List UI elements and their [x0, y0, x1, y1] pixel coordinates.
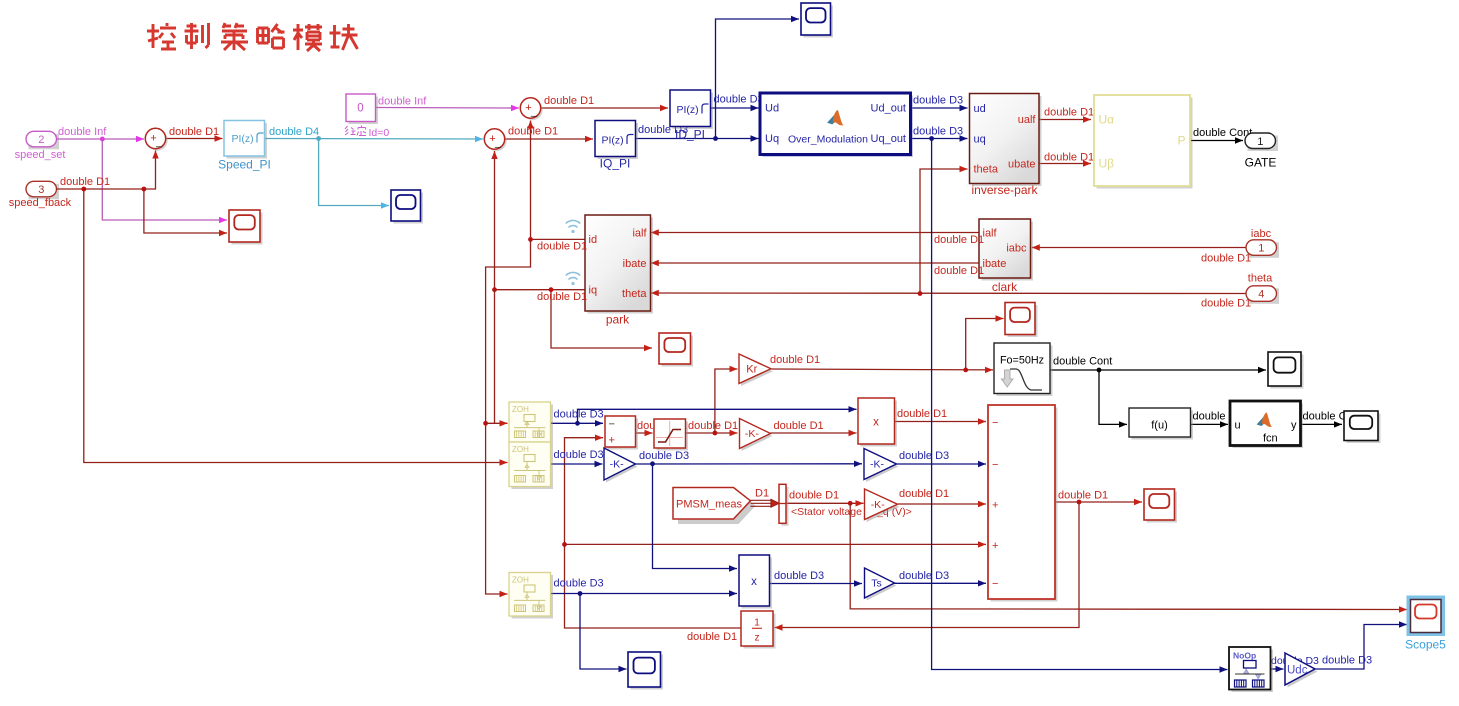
svg-text:theta: theta	[974, 164, 999, 176]
svg-text:_: _	[494, 137, 502, 149]
wire Udc to Scope5	[1316, 621, 1408, 669]
svg-text:Fo=50Hz: Fo=50Hz	[1000, 355, 1044, 367]
svg-text:NoOp: NoOp	[1233, 651, 1256, 661]
svg-text:0: 0	[357, 103, 363, 115]
scope Kr out	[1005, 303, 1038, 338]
wire ualf to Ualpha	[1040, 116, 1092, 122]
svg-text:-K-: -K-	[610, 459, 625, 471]
subsystem clark	[979, 219, 1033, 281]
wire IQ_PI out to Uq	[636, 135, 759, 141]
wire decoup sum to saturation	[636, 430, 653, 436]
svg-text:D1: D1	[755, 488, 769, 500]
svg-text:double D1: double D1	[934, 265, 984, 277]
svg-text:double D1: double D1	[687, 631, 737, 643]
wire ZOH1 out to decoup sum	[551, 420, 604, 426]
svg-text:−: −	[609, 419, 615, 431]
svg-text:id: id	[589, 234, 598, 246]
svg-text:double D1: double D1	[1058, 490, 1108, 502]
svg-text:−: −	[992, 417, 998, 429]
svg-text:+: +	[992, 500, 998, 512]
scope Scope5 selected	[1407, 596, 1446, 637]
wire big sum out to scope	[1056, 499, 1143, 505]
svg-text:Ud: Ud	[765, 103, 779, 115]
wire NoOp to Udc	[1271, 666, 1284, 672]
svg-text:z: z	[755, 633, 760, 644]
wire Vsq branch to Scope5	[850, 503, 1407, 612]
svg-text:u: u	[1235, 420, 1241, 432]
wire theta from port4 to park	[651, 290, 1246, 296]
wire id branch jog to ZOH3	[483, 239, 530, 597]
svg-text:double D1: double D1	[1044, 152, 1094, 164]
wire Kr to filter Fo	[772, 367, 994, 373]
svg-text:Ud_out: Ud_out	[871, 103, 906, 115]
svg-text:uq: uq	[974, 134, 986, 146]
svg-text:double D1: double D1	[770, 354, 820, 366]
svg-text:double D1: double D1	[169, 126, 219, 138]
subsystem P yellow	[1094, 95, 1193, 189]
svg-text:+: +	[609, 435, 615, 447]
svg-text:double D3: double D3	[554, 578, 604, 590]
lowpass filter block Fo=50Hz	[994, 343, 1053, 396]
MATLAB function block fcn	[1230, 401, 1303, 448]
wire filter out to scope	[1051, 367, 1267, 373]
svg-text:double D1: double D1	[537, 241, 587, 253]
svg-text:double D4: double D4	[269, 126, 319, 138]
subsystem Speed_PI	[224, 121, 267, 159]
wire fcn to scope	[1301, 421, 1343, 427]
label 给定Id=0	[345, 126, 366, 136]
bus selector block	[779, 484, 789, 526]
scope speed signals	[229, 210, 263, 245]
scope ZOH3	[628, 652, 663, 690]
svg-text:double Inf: double Inf	[378, 96, 427, 108]
bus signal triple line	[751, 500, 780, 508]
svg-text:speed_set: speed_set	[15, 149, 66, 161]
svg-text:−: −	[992, 459, 998, 471]
svg-text:ibate: ibate	[983, 258, 1007, 270]
input port 1 iabc	[1246, 240, 1279, 258]
svg-text:Uq_out: Uq_out	[871, 133, 906, 145]
svg-text:y: y	[1291, 420, 1297, 432]
svg-text:Speed_PI: Speed_PI	[218, 158, 271, 172]
wire Ud_out to inverse-park ud	[911, 105, 968, 111]
wire id branch to ZOH1	[486, 420, 508, 426]
gain Udc triangle	[1285, 653, 1318, 688]
svg-text:double Cont: double Cont	[1193, 127, 1252, 139]
wire ubate to Ubeta	[1040, 160, 1092, 166]
wire unit delay feedback	[562, 435, 741, 629]
svg-text:double D1: double D1	[897, 408, 947, 420]
subsystem park	[585, 215, 653, 314]
svg-text:double D1: double D1	[1044, 107, 1094, 119]
svg-text:_: _	[155, 136, 163, 148]
svg-text:double D1: double D1	[537, 291, 587, 303]
svg-text:inverse-park: inverse-park	[971, 183, 1038, 197]
wire product x to big sum port1	[895, 418, 987, 424]
svg-text:3: 3	[38, 184, 44, 196]
wire Uq_out to inverse-park uq	[911, 135, 968, 141]
zero-order hold ZOH2	[509, 442, 553, 489]
svg-text:x: x	[873, 417, 879, 429]
wire Ts to big sum port5	[895, 580, 987, 586]
svg-text:double D3: double D3	[714, 94, 764, 106]
svg-text:double D3: double D3	[639, 450, 689, 462]
svg-text:Udc: Udc	[1287, 665, 1308, 677]
constant block 0	[346, 94, 378, 124]
wire branch down to product x2	[653, 464, 738, 572]
svg-text:Uq: Uq	[765, 133, 779, 145]
subsystem inverse-park	[970, 94, 1042, 187]
svg-text:double D1: double D1	[1201, 253, 1251, 265]
wire constant to id sum double Inf	[376, 105, 520, 111]
svg-text:double D3: double D3	[899, 450, 949, 462]
svg-text:double D3: double D3	[554, 409, 604, 421]
input port 2 speed_set	[26, 131, 59, 149]
svg-text:+: +	[992, 540, 998, 552]
svg-text:Uβ: Uβ	[1099, 157, 1115, 171]
wire big sum branch to unit delay	[775, 502, 1080, 631]
svg-text:ualf: ualf	[1018, 114, 1037, 126]
output port 1 GATE	[1245, 133, 1278, 151]
wire Uq branch up to scope	[716, 16, 800, 139]
svg-text:double D1: double D1	[60, 176, 110, 188]
wire park iq feedback	[491, 151, 585, 292]
svg-text:double D1: double D1	[934, 234, 984, 246]
subsystem ID_PI	[670, 90, 713, 129]
svg-text:ZOH: ZOH	[512, 445, 529, 454]
svg-text:Over_Modulation: Over_Modulation	[788, 134, 868, 146]
wire iq down segment	[494, 290, 496, 424]
svg-text:Uα: Uα	[1099, 113, 1115, 127]
svg-text:GATE: GATE	[1245, 156, 1277, 170]
sum block speed error	[145, 128, 167, 150]
wire clark ialf to park	[651, 229, 979, 235]
gain -K- decoup	[740, 419, 773, 452]
sum block decoupling	[605, 416, 638, 450]
svg-text:double D1: double D1	[789, 490, 839, 502]
gain -K- blue left	[604, 448, 638, 483]
sum block id error	[520, 98, 542, 120]
wire ID_PI out to Ud	[711, 105, 759, 111]
wire branch up to Kr	[715, 366, 738, 433]
gain -K- blue right	[864, 449, 899, 483]
scope fcn out	[1344, 411, 1381, 443]
wire fu to fcn	[1191, 421, 1229, 427]
svg-text:clark: clark	[992, 280, 1018, 294]
svg-text:1: 1	[1257, 136, 1263, 148]
NoOp block	[1229, 647, 1273, 692]
gain Ts	[865, 568, 897, 601]
signal logging badge id	[566, 220, 580, 233]
wire gain Vsq to big sum port3	[898, 501, 987, 507]
wire speed_fback branch to scope	[144, 189, 227, 236]
svg-text:theta: theta	[1248, 273, 1273, 285]
sum block iq error	[484, 129, 506, 151]
svg-text:ialf: ialf	[632, 228, 647, 240]
scope iq	[659, 333, 693, 367]
scope Uq top	[801, 3, 833, 38]
svg-text:double D1: double D1	[899, 488, 949, 500]
svg-text:f(u): f(u)	[1151, 420, 1168, 432]
big sum block	[988, 405, 1058, 602]
svg-text:Kr: Kr	[746, 363, 757, 375]
wire gain blue to right gain blue	[636, 461, 863, 467]
svg-text:double D3: double D3	[554, 449, 604, 461]
svg-text:double D3: double D3	[899, 570, 949, 582]
scope filter out	[1268, 352, 1304, 389]
MATLAB function Over_Modulation	[760, 93, 913, 157]
svg-text:park: park	[606, 313, 630, 327]
input port 3 speed_fback	[26, 181, 59, 199]
svg-text:ZOH: ZOH	[512, 576, 529, 585]
svg-text:double D3: double D3	[1322, 655, 1372, 667]
wire speed_fback to speed sum	[57, 151, 159, 192]
svg-text:PI(z): PI(z)	[677, 104, 699, 116]
unit delay block 1/z	[741, 611, 776, 649]
svg-text:double D3: double D3	[774, 570, 824, 582]
scope double D4	[391, 190, 423, 224]
fcn expression block f(u)	[1129, 408, 1193, 440]
saturation block	[654, 419, 688, 451]
wire speed sum to Speed_PI	[166, 135, 223, 141]
subsystem IQ_PI	[595, 121, 638, 160]
svg-text:1: 1	[754, 618, 760, 629]
svg-text:ialf: ialf	[983, 228, 998, 240]
wire theta branch to inverse-park	[920, 166, 968, 294]
wire gain -K- to product x	[771, 430, 857, 436]
input port 4 theta	[1246, 286, 1279, 304]
svg-text:fcn: fcn	[1263, 433, 1278, 445]
svg-text:iabc: iabc	[1006, 243, 1027, 255]
svg-text:P: P	[1177, 134, 1185, 148]
wire speed_set to speed sum	[57, 136, 145, 142]
svg-text:−: −	[992, 578, 998, 590]
svg-text:_: _	[530, 106, 538, 118]
svg-text:Ts: Ts	[871, 578, 882, 590]
wire clark ibate to park	[651, 260, 979, 266]
wire P to GATE	[1191, 137, 1244, 143]
svg-text:theta: theta	[622, 288, 647, 300]
wire id sum to ID_PI	[541, 105, 668, 111]
svg-text:double D1: double D1	[544, 95, 594, 107]
svg-text:ZOH: ZOH	[512, 405, 529, 414]
wire branch to fu	[1099, 370, 1127, 428]
wire speed_set branch to scope	[102, 139, 227, 223]
from tag PMSM_meas	[673, 488, 756, 525]
wire bus selector to gain Vsq	[787, 500, 864, 506]
wire saturation to gain -K-	[686, 430, 738, 436]
svg-text:double D3: double D3	[913, 126, 963, 138]
scope big sum out	[1144, 489, 1177, 523]
wire filter branch to scope	[966, 315, 1004, 370]
wire right gain blue to big sum port2	[897, 461, 987, 467]
wire iq sum to IQ_PI	[505, 136, 593, 142]
svg-text:ID_PI: ID_PI	[675, 128, 705, 142]
svg-text:ibate: ibate	[623, 258, 647, 270]
wire iabc port to clark	[1032, 244, 1246, 250]
gain -K- Vsq	[865, 489, 900, 522]
svg-text:speed_fback: speed_fback	[9, 197, 72, 209]
title annotation 控制策略模块	[147, 23, 358, 51]
wire ZOH3 branch to scope	[580, 594, 627, 673]
svg-text:-K-: -K-	[871, 499, 886, 511]
svg-text:iq: iq	[589, 285, 598, 297]
svg-text:double Cont: double Cont	[1053, 356, 1112, 368]
product block x upper	[858, 398, 897, 447]
svg-text:Id=0: Id=0	[369, 127, 390, 139]
svg-text:double Inf: double Inf	[58, 126, 107, 138]
svg-text:2: 2	[38, 134, 44, 146]
svg-text:iabc: iabc	[1251, 228, 1272, 240]
svg-text:IQ_PI: IQ_PI	[600, 157, 631, 171]
svg-text:1: 1	[1258, 243, 1264, 255]
svg-text:4: 4	[1258, 289, 1264, 301]
wire ZOH3 out to product x2	[551, 590, 738, 596]
gain Kr	[739, 354, 773, 386]
svg-text:double D1: double D1	[688, 420, 738, 432]
svg-text:double D1: double D1	[774, 420, 824, 432]
svg-text:double D1: double D1	[1201, 298, 1251, 310]
svg-text:x: x	[751, 576, 757, 588]
wire Speed_PI to iq sum double D4	[265, 136, 484, 142]
wire ZOH1 branch to product x	[578, 406, 857, 423]
svg-text:double D3: double D3	[913, 95, 963, 107]
svg-text:PI(z): PI(z)	[602, 135, 624, 147]
svg-text:ud: ud	[974, 103, 986, 115]
svg-text:-K-: -K-	[870, 459, 885, 471]
svg-text:PMSM_meas: PMSM_meas	[676, 499, 743, 511]
wire Uq_out long branch to NoOp	[932, 139, 1228, 673]
wire ZOH2 out to gain -K- blue	[551, 461, 603, 467]
wire product x2 to Ts	[770, 580, 863, 586]
wire double D4 branch to scope	[319, 139, 389, 209]
wire park id feedback	[527, 121, 585, 242]
svg-text:double D1: double D1	[508, 126, 558, 138]
signal logging badge iq	[566, 272, 580, 285]
wire delay branch to big sum port4	[565, 541, 987, 547]
wire iq branch to scope	[549, 287, 652, 351]
product block x lower	[739, 555, 772, 609]
svg-text:Scope5: Scope5	[1405, 638, 1446, 652]
svg-text:ubate: ubate	[1008, 159, 1036, 171]
svg-text:PI(z): PI(z)	[232, 133, 254, 145]
wire speed_fback long branch to ZOH2	[84, 189, 508, 466]
zero-order hold ZOH3	[509, 573, 553, 619]
svg-text:-K-: -K-	[745, 428, 760, 440]
zero-order hold ZOH1	[509, 402, 553, 445]
